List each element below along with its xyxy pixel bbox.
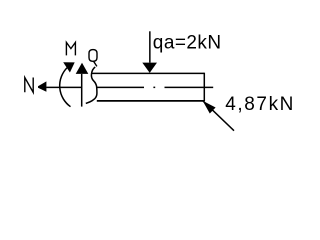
- svg-text:qa=2kN: qa=2kN: [153, 33, 222, 54]
- svg-text:4,87kN: 4,87kN: [225, 94, 295, 115]
